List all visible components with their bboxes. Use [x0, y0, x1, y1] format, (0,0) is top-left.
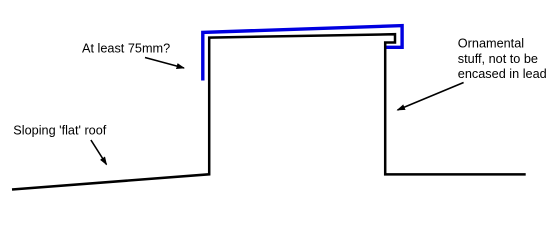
svg-text:Sloping 'flat' roof: Sloping 'flat' roof	[13, 124, 106, 138]
svg-text:encased in lead: encased in lead	[458, 67, 547, 81]
svg-text:At least 75mm?: At least 75mm?	[82, 41, 170, 55]
svg-text:stuff, not to be: stuff, not to be	[458, 52, 538, 66]
svg-text:Ornamental: Ornamental	[458, 36, 524, 50]
